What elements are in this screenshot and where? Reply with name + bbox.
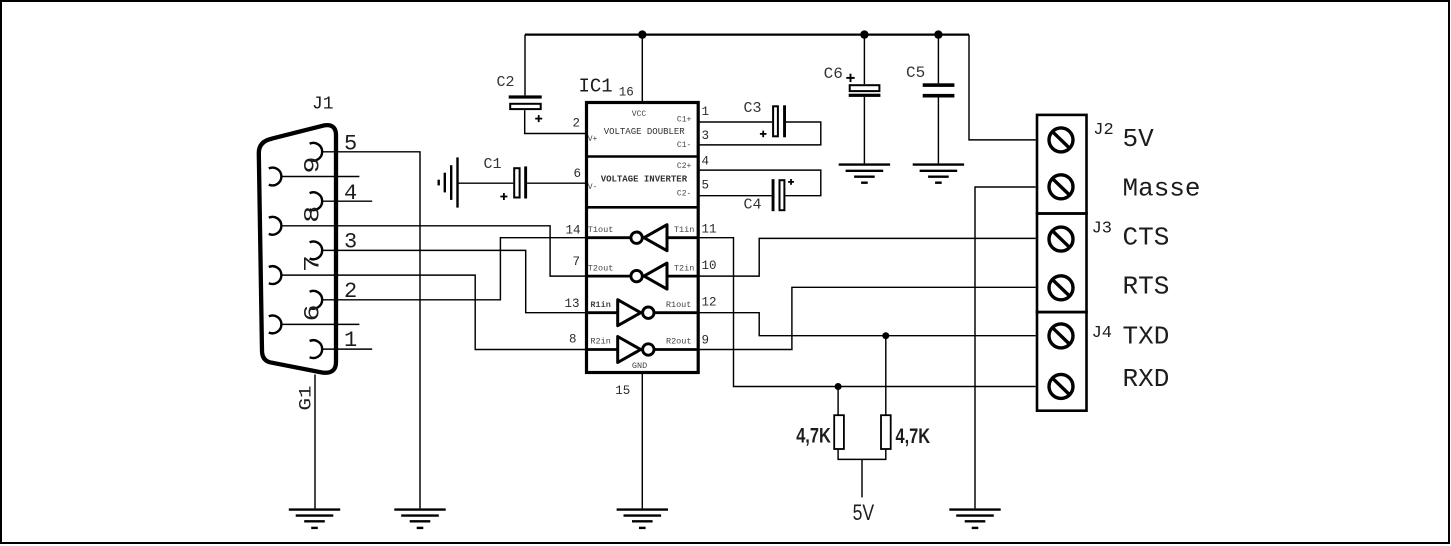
C6 plus bbox=[846, 74, 854, 82]
svg-text:RTS: RTS bbox=[1123, 272, 1170, 302]
svg-text:J4: J4 bbox=[1092, 324, 1112, 343]
svg-text:4: 4 bbox=[702, 154, 710, 168]
screw 5V bbox=[1049, 128, 1073, 152]
J1 pin 2 arc bbox=[310, 291, 323, 309]
wire IC pin 1 to C3 bbox=[698, 121, 772, 123]
svg-text:5V: 5V bbox=[1123, 124, 1155, 154]
ground G1 bbox=[289, 510, 340, 528]
R1 inverter bubble bbox=[643, 307, 654, 318]
wire IC pin 4 to C4 bbox=[698, 170, 821, 196]
svg-text:C5: C5 bbox=[906, 64, 925, 82]
capacitor C2 bbox=[509, 95, 542, 98]
svg-text:16: 16 bbox=[619, 86, 634, 100]
wire top 5V rail bbox=[525, 33, 969, 35]
svg-text:3: 3 bbox=[702, 129, 710, 143]
ground (pin5 wire) bbox=[394, 510, 445, 528]
wire pin7 to IC pin8 bbox=[282, 275, 587, 349]
svg-text:6: 6 bbox=[573, 167, 581, 181]
svg-text:12: 12 bbox=[702, 295, 717, 309]
wire rail to C5 bbox=[937, 35, 939, 84]
screw RXD bbox=[1049, 374, 1073, 398]
wire IC pin10 to CTS bbox=[698, 238, 1035, 276]
wire G1 to ground bbox=[314, 375, 316, 509]
wire pin3 to IC pin13 bbox=[322, 250, 586, 312]
wire pin2 to IC pin14 bbox=[322, 238, 586, 300]
resistor R1 4,7K bbox=[834, 415, 844, 449]
svg-text:J1: J1 bbox=[312, 95, 334, 115]
R1 inverter triangle bbox=[618, 300, 641, 326]
wire rail to C6 bbox=[863, 35, 865, 85]
terminal block J2 bbox=[1037, 115, 1087, 214]
svg-text:IC1: IC1 bbox=[579, 76, 613, 98]
svg-text:G1: G1 bbox=[296, 385, 316, 410]
wire C2 to IC pin 2 bbox=[525, 110, 587, 133]
T2 inverter lead left bbox=[587, 275, 632, 278]
svg-text:14: 14 bbox=[565, 223, 580, 237]
svg-text:2: 2 bbox=[572, 116, 580, 130]
wire ground to C1 bbox=[458, 182, 514, 184]
wire TXD node to R2 bbox=[885, 336, 887, 416]
R1 inverter lead right bbox=[655, 311, 699, 314]
J1 pin 6 arc bbox=[269, 316, 282, 334]
svg-text:C2: C2 bbox=[497, 74, 515, 91]
J1 pin 1 arc bbox=[310, 340, 323, 358]
svg-text:8: 8 bbox=[300, 206, 325, 223]
screw RTS bbox=[1049, 276, 1073, 300]
svg-text:6: 6 bbox=[300, 304, 325, 321]
svg-text:9: 9 bbox=[300, 156, 325, 173]
wire IC pin9 to RTS bbox=[698, 287, 1035, 349]
C4 plus bbox=[788, 179, 794, 185]
wire pin9 stub bbox=[282, 176, 360, 178]
screw TXD bbox=[1049, 324, 1073, 348]
node rail-C6 bbox=[860, 30, 868, 38]
terminal block J4 bbox=[1037, 312, 1087, 411]
svg-text:T2out: T2out bbox=[588, 263, 614, 273]
svg-text:C4: C4 bbox=[744, 196, 762, 213]
ground (Masse) bbox=[949, 510, 1000, 528]
ground (C1, pointing left) bbox=[439, 157, 458, 207]
wire pin4 stub bbox=[322, 200, 372, 202]
connector J1 (DB9) outline bbox=[259, 125, 336, 373]
resistor R2 4,7K bbox=[881, 415, 891, 449]
svg-text:11: 11 bbox=[702, 222, 717, 236]
wire IC pin15 to ground bbox=[641, 373, 643, 509]
node RXD-resistor bbox=[835, 383, 842, 390]
R2 inverter bubble bbox=[643, 344, 654, 355]
svg-text:5V: 5V bbox=[853, 501, 875, 525]
J1 pin 9 arc bbox=[269, 168, 282, 186]
wire to 5V supply bbox=[861, 459, 863, 497]
svg-text:V+: V+ bbox=[588, 135, 598, 144]
wire IC pin16 to rail bbox=[641, 35, 643, 103]
T2 inverter lead right bbox=[667, 275, 698, 278]
svg-text:10: 10 bbox=[702, 259, 717, 273]
node TXD-resistor bbox=[882, 332, 889, 339]
C1 plus bbox=[500, 193, 507, 200]
T1 inverter triangle bbox=[644, 225, 667, 251]
wire C3 to IC pin 3 bbox=[698, 122, 821, 145]
svg-text:VOLTAGE INVERTER: VOLTAGE INVERTER bbox=[601, 175, 688, 185]
R1 inverter lead left bbox=[587, 311, 618, 314]
svg-text:T1out: T1out bbox=[588, 225, 614, 235]
svg-text:TXD: TXD bbox=[1123, 321, 1170, 351]
svg-text:GND: GND bbox=[632, 361, 647, 371]
wire rail to C2 bbox=[524, 35, 526, 96]
ground (IC pin15) bbox=[617, 510, 668, 528]
terminal block J3 bbox=[1037, 214, 1087, 313]
wire C1 to IC pin 6 bbox=[527, 182, 586, 184]
svg-text:R1out: R1out bbox=[666, 300, 692, 310]
C3 plus bbox=[760, 131, 767, 138]
node rail-C5 bbox=[934, 30, 942, 38]
T2 inverter bubble bbox=[631, 270, 642, 281]
svg-text:R1in: R1in bbox=[590, 300, 610, 310]
svg-text:R2in: R2in bbox=[590, 337, 610, 347]
capacitor C3 bbox=[773, 106, 778, 136]
svg-text:1: 1 bbox=[702, 105, 710, 119]
capacitor C4 bbox=[772, 179, 775, 211]
IC U1 body (IC1 MAX232) bbox=[587, 103, 699, 373]
capacitor C5 bbox=[923, 83, 955, 87]
T1 inverter bubble bbox=[631, 232, 642, 243]
T1 inverter lead left bbox=[587, 236, 632, 239]
svg-text:R2out: R2out bbox=[666, 337, 692, 347]
J1 pin 3 arc bbox=[310, 242, 323, 260]
R2 inverter lead right bbox=[655, 348, 699, 351]
node rail-pin16 bbox=[638, 30, 646, 38]
wire pin5 to ground bbox=[322, 152, 420, 509]
wire pin8 to IC pin7 bbox=[282, 226, 587, 276]
ground (C5) bbox=[913, 165, 964, 183]
svg-text:4,7K: 4,7K bbox=[796, 423, 831, 446]
IC divider 1 bbox=[587, 155, 699, 158]
svg-text:RXD: RXD bbox=[1123, 364, 1170, 394]
wire C6 to ground bbox=[863, 97, 865, 163]
R2 inverter triangle bbox=[618, 337, 641, 363]
svg-text:4: 4 bbox=[344, 181, 357, 206]
ground (C6) bbox=[839, 165, 890, 183]
svg-text:C2+: C2+ bbox=[677, 162, 692, 171]
svg-text:C1-: C1- bbox=[677, 141, 691, 150]
svg-text:J2: J2 bbox=[1093, 121, 1113, 140]
svg-text:13: 13 bbox=[564, 297, 579, 311]
J1 pin 5 arc bbox=[310, 143, 323, 161]
wire 5V rail to J2 bbox=[969, 35, 1036, 140]
wire IC pin 5 to C4 bbox=[698, 195, 771, 197]
wire C5 to ground bbox=[937, 98, 939, 164]
wire pin1 stub bbox=[322, 348, 372, 350]
wire resistors join bbox=[838, 449, 886, 459]
svg-text:C3: C3 bbox=[744, 100, 762, 117]
svg-text:15: 15 bbox=[615, 384, 630, 398]
svg-text:T1in: T1in bbox=[674, 225, 694, 235]
svg-text:C6: C6 bbox=[824, 65, 843, 83]
wire Masse J2 to ground bbox=[975, 187, 1036, 508]
svg-text:C1: C1 bbox=[484, 156, 502, 173]
svg-text:T2in: T2in bbox=[674, 263, 694, 273]
svg-text:CTS: CTS bbox=[1123, 223, 1170, 253]
wire IC pin12 to TXD bbox=[698, 313, 1035, 336]
T1 inverter lead right bbox=[667, 236, 698, 239]
svg-text:7: 7 bbox=[572, 255, 580, 269]
svg-text:5: 5 bbox=[702, 178, 710, 192]
R2 inverter lead left bbox=[587, 348, 618, 351]
wire pin6 stub bbox=[282, 323, 360, 325]
screw Masse bbox=[1049, 175, 1073, 199]
svg-text:VCC: VCC bbox=[632, 110, 647, 119]
svg-text:5: 5 bbox=[344, 132, 357, 157]
J1 pin 4 arc bbox=[310, 192, 323, 210]
wire RXD node to R1 bbox=[837, 387, 839, 416]
svg-text:V-: V- bbox=[588, 183, 598, 192]
wire IC pin11 to RXD bbox=[698, 238, 1035, 387]
capacitor C1 bbox=[514, 168, 519, 197]
screw CTS bbox=[1049, 227, 1073, 251]
svg-text:7: 7 bbox=[300, 255, 325, 272]
IC divider 2 bbox=[587, 206, 699, 209]
svg-text:9: 9 bbox=[702, 333, 710, 347]
svg-text:4,7K: 4,7K bbox=[896, 424, 931, 447]
C2 plus bbox=[535, 115, 542, 122]
J1 pin 7 arc bbox=[269, 266, 282, 284]
svg-text:VOLTAGE DOUBLER: VOLTAGE DOUBLER bbox=[604, 127, 686, 137]
svg-text:C1+: C1+ bbox=[677, 115, 692, 124]
svg-text:8: 8 bbox=[569, 332, 577, 346]
J1 pin 8 arc bbox=[269, 217, 282, 235]
svg-text:C2-: C2- bbox=[677, 189, 691, 198]
T2 inverter triangle bbox=[644, 263, 667, 289]
capacitor C6 bbox=[850, 85, 880, 91]
svg-text:J3: J3 bbox=[1092, 219, 1112, 238]
svg-text:Masse: Masse bbox=[1123, 173, 1201, 203]
